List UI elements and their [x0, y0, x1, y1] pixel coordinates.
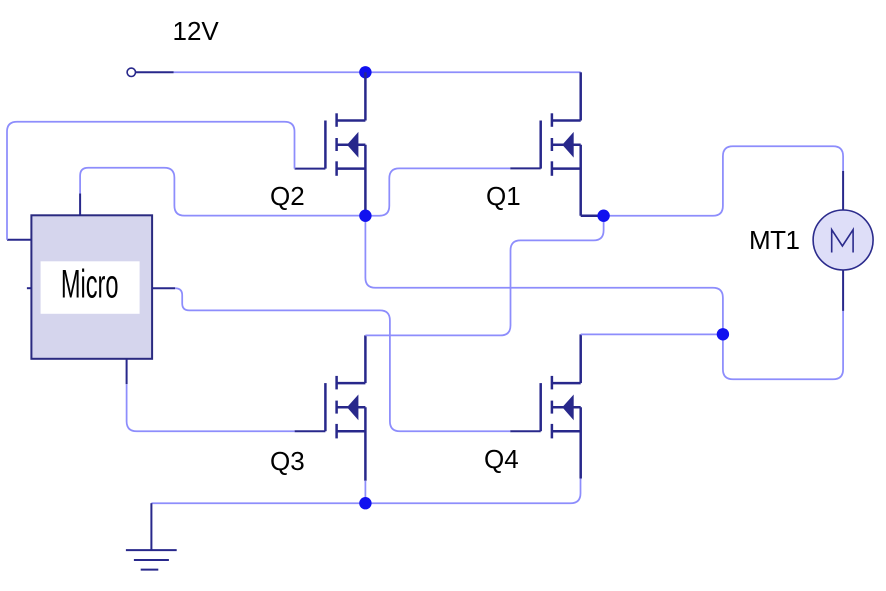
svg-text:MT1: MT1	[749, 225, 800, 255]
svg-text:Micro: Micro	[61, 261, 119, 306]
transistor Q4	[510, 334, 581, 478]
wire node A to Q1 gate	[369, 168, 510, 215]
pin stub Micro right	[152, 287, 175, 289]
wire Q3 source to ground rail	[364, 481, 366, 504]
wire ground rail	[151, 479, 580, 504]
ground	[126, 503, 177, 569]
svg-text:Q2: Q2	[270, 181, 305, 211]
junction node B Q1 source	[597, 210, 609, 222]
wire node B to Q3 drain	[365, 221, 603, 336]
block U1 Micro	[27, 215, 152, 358]
transistor Q2	[295, 72, 366, 215]
junction motor bottom node	[717, 328, 729, 340]
wire Micro left pin to Q2 gate	[7, 122, 295, 240]
wire 12V rail	[174, 71, 581, 73]
wire Q4 drain to motor bottom node	[581, 333, 719, 335]
transistor Q1	[510, 72, 600, 215]
junction node A Q2 source	[359, 210, 371, 222]
wire node B Q1 source to motor top	[607, 146, 844, 216]
junction on 12V rail	[359, 66, 371, 78]
terminal 12V input pin	[127, 68, 174, 76]
wire Micro bottom pin to Q3 gate	[127, 384, 295, 431]
svg-text:12V: 12V	[173, 16, 220, 46]
wire node A to motor bottom	[365, 216, 843, 380]
transistor Q3	[295, 335, 366, 480]
junction ground node	[359, 497, 371, 509]
motor MT1	[813, 171, 873, 311]
wire Micro top pin to node A	[80, 168, 361, 216]
svg-text:Q4: Q4	[484, 444, 519, 474]
pin stub Micro bottom	[126, 359, 128, 384]
pin stub Micro left	[7, 239, 31, 241]
pin stub Micro top	[79, 193, 81, 215]
svg-text:Q1: Q1	[486, 181, 521, 211]
svg-text:Q3: Q3	[270, 446, 305, 476]
wire Micro right pin to Q4 gate	[175, 288, 510, 431]
